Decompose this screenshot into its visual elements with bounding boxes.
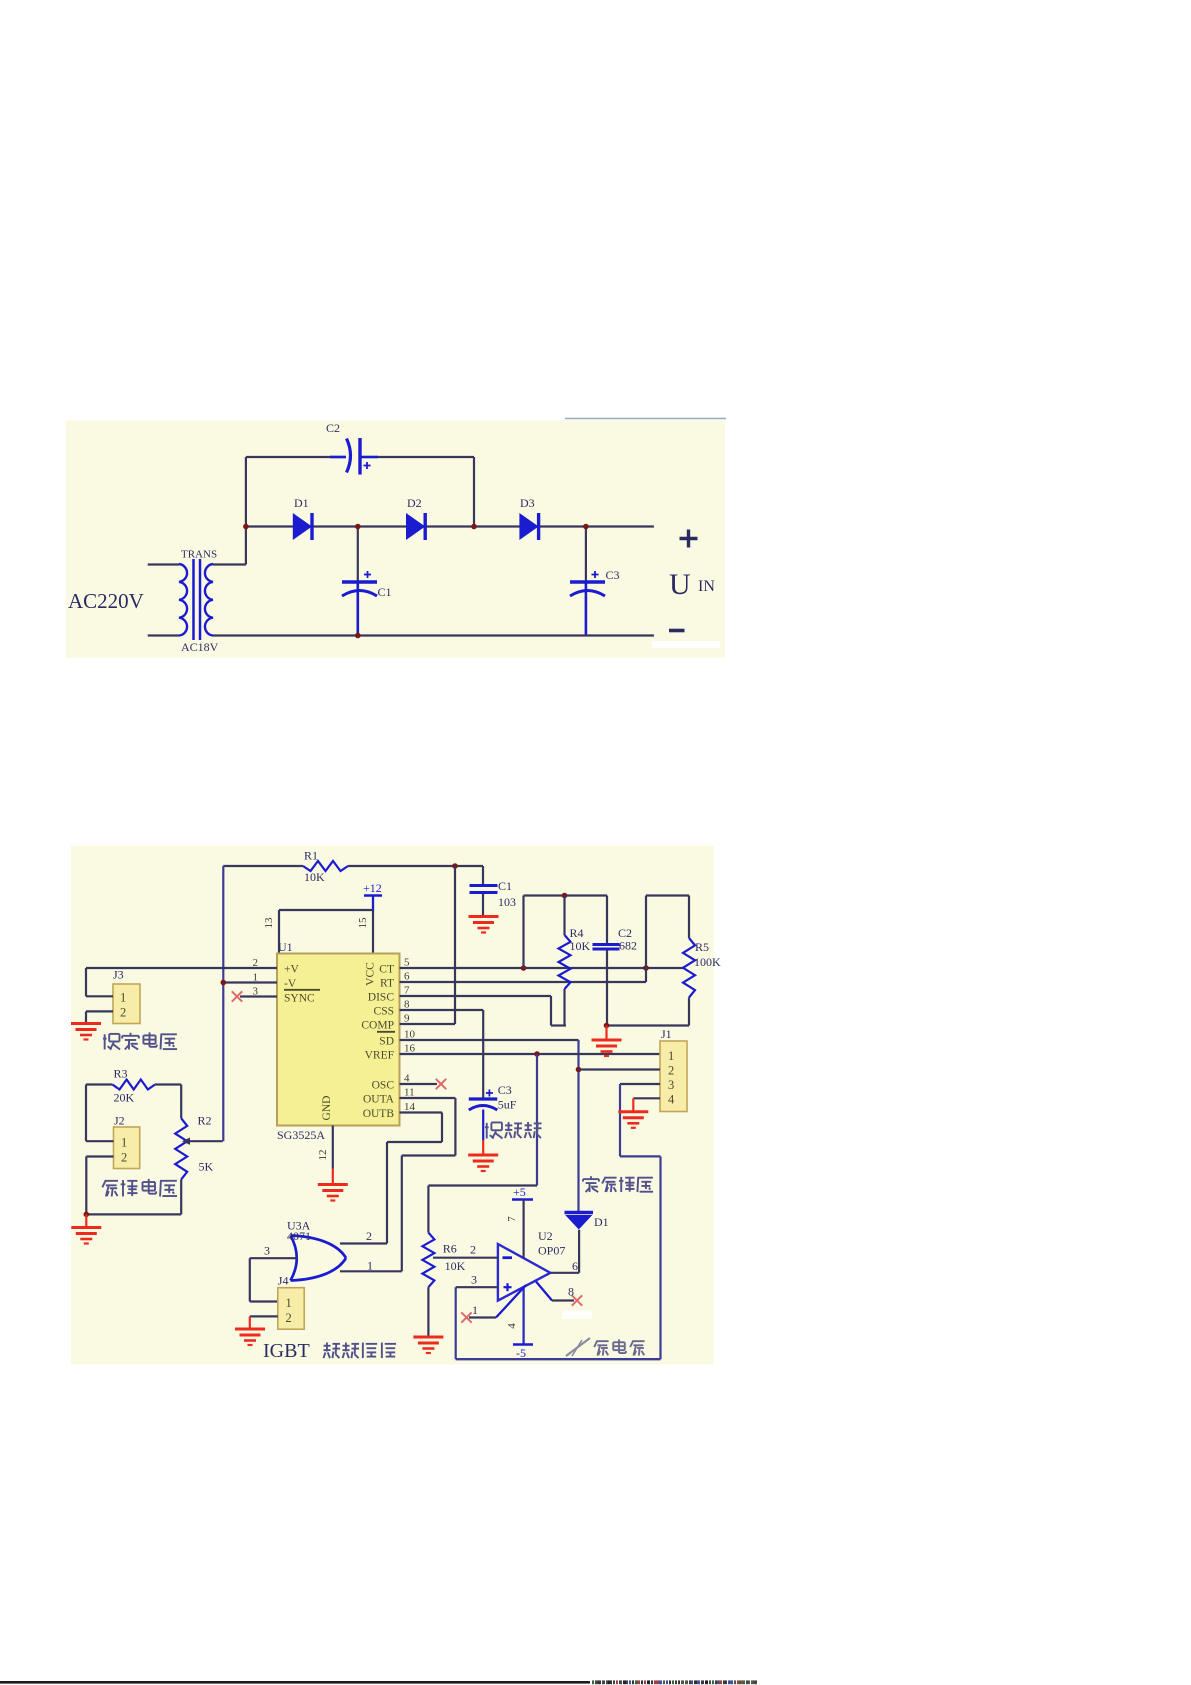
op-amp U2 OP07 xyxy=(498,1244,550,1301)
svg-text:+5: +5 xyxy=(513,1185,526,1199)
wire: J2 bottom rail xyxy=(86,1213,181,1215)
horizontal from VREF branch to R6 xyxy=(428,1184,537,1186)
svg-text:C2: C2 xyxy=(326,421,340,435)
svg-text:R5: R5 xyxy=(695,940,709,954)
svg-text:3: 3 xyxy=(264,1244,270,1258)
svg-text:10: 10 xyxy=(404,1029,416,1041)
svg-text:-5: -5 xyxy=(516,1346,526,1360)
svg-text:OUTB: OUTB xyxy=(363,1108,395,1120)
wire: opamp pin3 input + bottom rail xyxy=(456,1286,498,1288)
resistor R4 xyxy=(563,896,565,936)
wire: J2 pin1 / R3 left vertical xyxy=(86,1140,114,1142)
svg-text:682: 682 xyxy=(619,939,637,953)
svg-text:U1: U1 xyxy=(278,940,293,954)
wire: C2 left vertical / to transformer xyxy=(245,457,247,565)
wire: RT pin6 xyxy=(400,981,647,983)
svg-text:U: U xyxy=(669,568,691,601)
wire: J4 pin2 to ground xyxy=(250,1315,278,1317)
wire: +12 stem to pin15 xyxy=(372,896,374,912)
wire: J1 pin4 to ground xyxy=(633,1097,660,1099)
svg-text:2: 2 xyxy=(286,1311,292,1325)
svg-text:+V: +V xyxy=(284,964,299,976)
svg-text:5: 5 xyxy=(404,957,410,969)
svg-text:VCC: VCC xyxy=(365,962,377,986)
svg-text:CT: CT xyxy=(379,964,394,976)
svg-text:2: 2 xyxy=(121,1151,127,1165)
wire: SYNC pin3 stub xyxy=(240,995,277,997)
svg-text:2: 2 xyxy=(120,1006,126,1020)
resistor R6 xyxy=(427,1186,429,1233)
svg-text:13: 13 xyxy=(263,917,275,929)
top rail left (R4/C2) xyxy=(524,894,608,896)
svg-text:1: 1 xyxy=(286,1296,292,1310)
connector J1 xyxy=(660,1041,687,1112)
svg-text:1: 1 xyxy=(121,1136,127,1150)
long bottom rail (current sense) xyxy=(456,1358,661,1360)
ground below R6 xyxy=(413,1336,443,1339)
potentiometer R2 xyxy=(175,1118,187,1179)
wire: AC input leads xyxy=(148,563,179,565)
resistor R3 xyxy=(86,1083,112,1085)
svg-text:1: 1 xyxy=(120,991,126,1005)
wire: CT pin5 xyxy=(400,967,684,969)
IC U1 SG3525A xyxy=(277,954,400,1126)
SG3525 schematic background xyxy=(71,846,714,1365)
wire: R1 left vertical (feedback) xyxy=(222,866,224,1141)
svg-text:10K: 10K xyxy=(570,939,591,953)
svg-text:COMP: COMP xyxy=(361,1020,394,1032)
wire: C2 top left segment xyxy=(246,456,345,458)
opamp pin1 stub xyxy=(469,1316,496,1318)
svg-text:16: 16 xyxy=(404,1043,416,1055)
diode D1 xyxy=(293,513,312,540)
svg-text:10K: 10K xyxy=(445,1259,466,1273)
svg-text:3: 3 xyxy=(471,1273,477,1287)
svg-text:2: 2 xyxy=(668,1064,674,1078)
svg-text:1: 1 xyxy=(367,1259,373,1273)
svg-text:R2: R2 xyxy=(198,1114,212,1128)
junction dot R1/COMP xyxy=(452,863,458,869)
svg-text:J2: J2 xyxy=(114,1114,125,1128)
diode D2 xyxy=(406,513,425,540)
transformer TRANS xyxy=(179,564,187,636)
label ruǎnqǐdòng xyxy=(486,1123,488,1139)
wire: R2 bottom xyxy=(180,1179,182,1214)
label shèdìng diànyā xyxy=(104,1034,106,1049)
svg-text:TRANS: TRANS xyxy=(181,549,217,561)
svg-text:C3: C3 xyxy=(498,1083,512,1097)
svg-text:OSC: OSC xyxy=(372,1080,395,1092)
wire: -V pin1 xyxy=(223,981,277,983)
stray gray line xyxy=(565,418,726,420)
wire: J3 pin2 xyxy=(86,1010,113,1012)
wire: bottom rail xyxy=(213,634,654,636)
capacitor C3 5uF xyxy=(469,1097,498,1100)
wire: R3 right corner down to R2 xyxy=(180,1085,182,1119)
svg-text:4: 4 xyxy=(404,1073,410,1085)
power supply schematic background xyxy=(66,421,725,659)
svg-text:4: 4 xyxy=(506,1323,518,1329)
svg-text:5K: 5K xyxy=(199,1160,214,1174)
svg-text:14: 14 xyxy=(404,1101,416,1113)
ground J2 xyxy=(85,1214,87,1227)
svg-text:R6: R6 xyxy=(443,1242,457,1256)
wire: DISC pin7 L-path xyxy=(400,995,552,997)
svg-text:2: 2 xyxy=(470,1243,476,1257)
wire: VREF branch down xyxy=(536,1054,538,1186)
top rail right (R5) xyxy=(646,894,689,896)
-5 power pin4 xyxy=(522,1287,524,1344)
svg-text:J3: J3 xyxy=(113,968,124,982)
svg-text:10K: 10K xyxy=(304,870,325,884)
svg-text:-V: -V xyxy=(284,978,297,990)
wire: J3 pin1 xyxy=(86,995,113,997)
wire: J1 pin2 xyxy=(579,1068,661,1070)
wire: J1 pin3 loop xyxy=(620,1083,660,1085)
wire: CSS pin8 to C3 xyxy=(400,1009,484,1011)
bottom colorful strip xyxy=(592,1680,594,1684)
svg-text:R4: R4 xyxy=(570,926,584,940)
svg-text:4071: 4071 xyxy=(287,1229,311,1243)
svg-text:R1: R1 xyxy=(304,849,318,863)
label guòliúbǎohù xyxy=(590,1176,592,1178)
wire: vertical to RT xyxy=(645,896,647,983)
svg-text:J4: J4 xyxy=(278,1274,289,1288)
diode D3 xyxy=(519,513,538,540)
svg-text:D3: D3 xyxy=(520,496,535,510)
bottom rail right + ground xyxy=(607,1024,690,1026)
wire: gate input 3 + J4 xyxy=(250,1257,298,1259)
wire: OUTB pin14 path to gate xyxy=(400,1111,443,1113)
wire: pin13 loop xyxy=(279,909,373,911)
wire: SD pin10 to D1 chain xyxy=(400,1039,579,1041)
svg-text:1: 1 xyxy=(472,1303,478,1317)
ground J3 xyxy=(71,1022,101,1025)
resistor R5 xyxy=(688,896,690,939)
svg-text:100K: 100K xyxy=(694,955,721,969)
svg-text:6: 6 xyxy=(404,971,410,983)
svg-text:9: 9 xyxy=(404,1013,410,1025)
svg-text:OUTA: OUTA xyxy=(363,1094,395,1106)
wire: COMP pin9 up to R1 xyxy=(400,1023,456,1025)
wire: vertical to CT xyxy=(522,896,524,969)
svg-text:SG3525A: SG3525A xyxy=(277,1128,325,1142)
opamp pin8 stub xyxy=(536,1282,552,1301)
svg-text:4: 4 xyxy=(668,1093,675,1107)
svg-text:3: 3 xyxy=(668,1078,674,1092)
svg-text:RT: RT xyxy=(380,978,394,990)
svg-text:2: 2 xyxy=(366,1229,372,1243)
wire: D1 to opamp out xyxy=(578,1230,580,1273)
svg-text:C1: C1 xyxy=(378,585,392,599)
svg-text:U2: U2 xyxy=(538,1229,553,1243)
svg-text:D1: D1 xyxy=(594,1215,609,1229)
OR gate U3A 4071 xyxy=(291,1236,297,1281)
svg-text:+12: +12 xyxy=(363,881,382,895)
white streak artifact xyxy=(652,641,720,648)
resistor R1 xyxy=(223,865,303,867)
wire: VREF pin16 to J1 xyxy=(400,1053,661,1055)
svg-text:7: 7 xyxy=(404,985,410,997)
svg-text:CSS: CSS xyxy=(374,1006,394,1018)
capacitor C1 103 xyxy=(482,866,484,884)
wire: J2 pin2 down xyxy=(86,1155,113,1157)
diode D1 (protection) xyxy=(565,1211,594,1214)
output - symbol xyxy=(669,629,685,633)
junction dots top schematic xyxy=(243,524,249,530)
svg-text:1: 1 xyxy=(668,1049,674,1063)
capacitor C2 682 xyxy=(606,896,608,944)
svg-text:AC18V: AC18V xyxy=(181,640,219,654)
wire+ground below C3 xyxy=(482,1110,484,1141)
svg-text:DISC: DISC xyxy=(368,992,395,1004)
output + symbol xyxy=(680,537,698,540)
svg-text:8: 8 xyxy=(404,999,410,1011)
svg-text:D1: D1 xyxy=(294,496,309,510)
svg-text:C3: C3 xyxy=(606,568,620,582)
wire: OSC pin4 stub xyxy=(400,1083,438,1085)
svg-text:11: 11 xyxy=(404,1087,415,1099)
svg-text:J1: J1 xyxy=(661,1027,672,1041)
wire: main diode rail xyxy=(246,525,654,527)
watermarked label X负电流 xyxy=(566,1338,590,1356)
capacitor C1 xyxy=(357,527,359,582)
wire: opamp pin2 input xyxy=(433,1257,498,1259)
svg-text:20K: 20K xyxy=(114,1091,135,1105)
svg-text:D2: D2 xyxy=(407,496,422,510)
wire: OUTA pin11 path to gate xyxy=(400,1097,456,1099)
wire: +V pin2 xyxy=(86,967,277,969)
bottom black line xyxy=(0,1681,590,1684)
svg-text:OP07: OP07 xyxy=(538,1244,565,1258)
svg-text:5uF: 5uF xyxy=(498,1098,517,1112)
wire: C2 right vertical xyxy=(473,457,475,527)
connector J4 xyxy=(278,1288,304,1330)
svg-text:12: 12 xyxy=(317,1150,329,1161)
ground below C1 xyxy=(469,915,499,918)
svg-text:6: 6 xyxy=(572,1259,578,1273)
label fǎnkuì diànyā xyxy=(102,1180,106,1187)
svg-text:IN: IN xyxy=(698,578,715,595)
wire+ground: pin12 GND stem xyxy=(332,1126,334,1169)
svg-text:VREF: VREF xyxy=(365,1050,394,1062)
wire: C2 top right segment xyxy=(360,456,475,458)
svg-text:103: 103 xyxy=(498,895,516,909)
capacitor C3 (top schematic) xyxy=(585,527,587,582)
svg-text:R3: R3 xyxy=(114,1067,128,1081)
capacitor C2 xyxy=(330,456,346,459)
svg-text:AC220V: AC220V xyxy=(68,589,144,613)
connector J2 xyxy=(114,1127,140,1169)
svg-text:GND: GND xyxy=(321,1096,333,1121)
connector J3 xyxy=(113,984,140,1024)
wire: R2 wiper xyxy=(188,1140,223,1142)
svg-text:SD: SD xyxy=(379,1036,394,1048)
svg-text:SYNC: SYNC xyxy=(284,993,315,1005)
svg-text:IGBT: IGBT xyxy=(263,1340,310,1362)
svg-text:8: 8 xyxy=(568,1285,574,1299)
svg-text:C1: C1 xyxy=(498,879,512,893)
svg-text:7: 7 xyxy=(506,1216,518,1222)
svg-text:15: 15 xyxy=(357,917,369,929)
